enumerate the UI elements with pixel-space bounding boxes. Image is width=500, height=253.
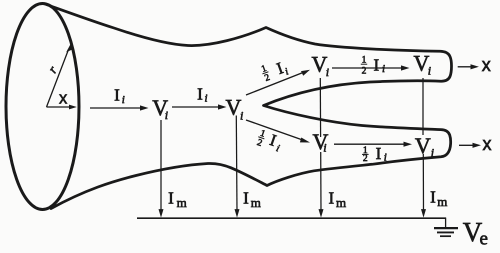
svg-text:m: m [251, 195, 261, 210]
svg-text:i: i [122, 94, 125, 106]
svg-text:r: r [45, 62, 61, 75]
svg-text:V: V [415, 133, 431, 158]
svg-text:2: 2 [362, 66, 367, 76]
svg-text:I: I [430, 188, 436, 207]
svg-text:i: i [326, 65, 329, 79]
svg-text:I: I [114, 85, 120, 104]
svg-text:m: m [336, 195, 346, 210]
svg-text:i: i [275, 143, 281, 154]
svg-text:I: I [376, 144, 382, 163]
svg-text:i: i [384, 152, 387, 164]
svg-text:m: m [177, 195, 187, 210]
svg-text:2: 2 [363, 154, 368, 164]
svg-text:m: m [437, 194, 447, 209]
svg-text:I: I [168, 189, 174, 208]
svg-text:2: 2 [256, 138, 264, 149]
svg-text:i: i [240, 109, 243, 123]
svg-text:i: i [431, 146, 434, 160]
svg-text:i: i [165, 108, 168, 122]
svg-text:e: e [480, 229, 488, 250]
svg-text:i: i [382, 63, 385, 75]
svg-text:i: i [428, 64, 431, 78]
svg-text:I: I [328, 189, 334, 208]
svg-text:I: I [243, 189, 249, 208]
svg-text:I: I [197, 84, 203, 103]
svg-text:2: 2 [264, 73, 272, 84]
svg-text:I: I [373, 56, 379, 75]
svg-text:i: i [205, 93, 208, 105]
svg-text:i: i [323, 141, 326, 155]
svg-text:x: x [482, 55, 491, 75]
svg-text:x: x [59, 89, 68, 107]
svg-text:x: x [483, 134, 492, 154]
